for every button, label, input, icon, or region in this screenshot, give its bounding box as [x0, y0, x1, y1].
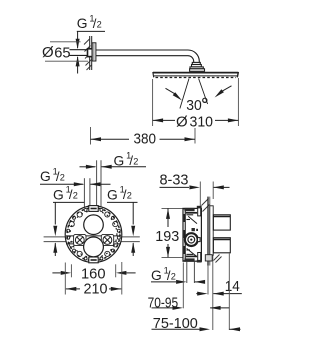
svg-text:Ø: Ø: [42, 44, 54, 61]
wall flange escutcheon: [92, 43, 96, 61]
svg-text:G: G: [114, 153, 125, 168]
svg-text:310: 310: [190, 114, 214, 131]
box rear wall thick: [183, 209, 185, 261]
rosette outer circle: [65, 206, 122, 263]
small stop marks above knob: [192, 228, 195, 231]
plate lines extended down: [207, 266, 209, 295]
flange top extension line: [50, 41, 81, 43]
box top cap bar: [185, 208, 195, 211]
box bottom cap bar: [185, 258, 195, 261]
right side stub arrows: [131, 226, 135, 237]
dimension row upper-right stub: [80, 166, 96, 168]
thermostat spindle knob: [185, 233, 198, 246]
dimension 160 extension lines: [70, 264, 72, 277]
svg-text:G: G: [40, 169, 51, 184]
ball joint nut stack: [192, 62, 200, 64]
mounting bar lines: [66, 235, 121, 237]
plate bottom flange: [205, 255, 212, 261]
bottom fixing screw: [198, 253, 201, 262]
inner bracket top: [186, 212, 197, 214]
inner bracket bottom: [186, 255, 197, 257]
svg-text:210: 210: [84, 280, 108, 297]
bottom connection tab: [89, 257, 98, 263]
380 left extension line: [90, 127, 92, 145]
380 right extension line: [194, 128, 196, 144]
dimension 193: [166, 208, 170, 219]
dimension 210 extension lines: [64, 263, 66, 295]
dimension 193 extension lines: [162, 207, 184, 209]
dimension 70-95: [152, 307, 173, 309]
svg-text:2: 2: [97, 19, 102, 29]
svg-text:380: 380: [134, 131, 157, 148]
spray angle right line: [199, 79, 208, 105]
arrow down onto pipe top: [76, 39, 80, 50]
svg-text:2: 2: [73, 191, 78, 201]
right mounting ear: [101, 234, 113, 245]
ring small bosses: [117, 236, 120, 239]
spray angle left line: [180, 79, 189, 109]
left side stub lines: [44, 236, 66, 238]
8-33 left extension line: [199, 182, 201, 219]
tile layer: [210, 206, 213, 256]
wall plate front line: [209, 197, 211, 266]
svg-text:G: G: [77, 16, 88, 31]
upper supply stub: [213, 215, 230, 230]
valve rough-in box outline: [183, 208, 201, 261]
8-33 right extension line / wall face: [212, 182, 214, 200]
shower head top surface: [153, 72, 238, 74]
dimension 75-100: [152, 328, 200, 330]
dimension 380: [91, 137, 102, 141]
svg-text:Ø: Ø: [176, 113, 188, 130]
dimension 8-33: [160, 186, 190, 188]
underline right label: [107, 201, 138, 203]
bottom outlet pipe: [186, 262, 188, 284]
upper valve opening circle: [84, 215, 104, 235]
leader to right side stub: [132, 202, 134, 224]
box rear extension line: [182, 263, 184, 309]
stub end extension line: [228, 254, 230, 331]
left side stub arrows: [53, 226, 57, 237]
dimension G 1/2 bottom outlet: [151, 281, 176, 283]
arrow up onto pipe bottom: [76, 56, 80, 67]
plaster hatch top: [202, 199, 209, 206]
dimension 160: [52, 272, 60, 274]
underline left label: [53, 201, 84, 203]
svg-text:30: 30: [186, 97, 202, 114]
svg-text:8-33: 8-33: [160, 171, 189, 188]
svg-text:193: 193: [155, 228, 179, 245]
rough-in body jagged ring: [67, 208, 120, 261]
flange bottom extension line: [45, 60, 88, 62]
diameter 310 left extension line: [152, 79, 154, 126]
shower head left edge: [152, 72, 155, 77]
svg-text:G: G: [107, 187, 118, 202]
svg-text:2: 2: [133, 157, 138, 167]
svg-text:2: 2: [60, 172, 65, 182]
top connection tab: [89, 206, 98, 212]
svg-text:14: 14: [225, 278, 240, 295]
shower head spray face dashed: [156, 77, 237, 79]
dimension 14 plate thickness: [196, 293, 197, 295]
wall plate rear line: [207, 197, 209, 266]
leader underline for G 1/2: [77, 30, 105, 32]
upper left pipe stub: [83, 178, 85, 208]
wall section line (top figure): [89, 36, 91, 70]
upper right pipe stub: [96, 160, 98, 209]
leader to left side stub: [54, 202, 56, 224]
svg-text:G: G: [53, 187, 64, 202]
dimension 210: [66, 287, 77, 291]
wall hatching (top figure): [84, 39, 90, 45]
G 1/2 leader vertical dimension line: [77, 31, 79, 48]
spray angle right arrow leader: [221, 86, 232, 92]
spray angle left arrow leader: [166, 88, 177, 95]
shower head bottom rim: [154, 75, 238, 77]
svg-text:G: G: [151, 268, 162, 283]
svg-text:2: 2: [127, 191, 132, 201]
left mounting ear: [74, 234, 86, 245]
supply pipe lines through wall: [70, 49, 90, 51]
shower head right edge: [237, 72, 238, 77]
dimension row upper-left stub: [40, 183, 83, 185]
pipe joint inside wall: [88, 49, 93, 57]
top fixing screw: [198, 207, 201, 216]
lower supply stub: [213, 238, 230, 253]
dimension diameter 310: [153, 118, 164, 122]
right side stub lines: [121, 236, 140, 238]
diameter 310 right extension line: [237, 78, 239, 126]
svg-text:2: 2: [171, 271, 176, 281]
plaster hatch bottom: [214, 255, 220, 261]
svg-text:65: 65: [54, 44, 70, 61]
shower arm horizontal pipe: [96, 50, 199, 62]
lower valve opening circle: [84, 237, 104, 257]
